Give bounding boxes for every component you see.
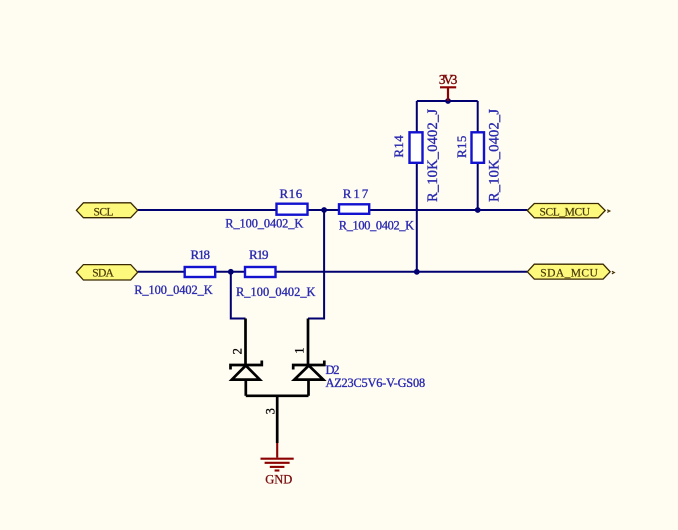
- svg-text:SDA_MCU: SDA_MCU: [540, 268, 598, 280]
- svg-text:3: 3: [264, 408, 278, 414]
- svg-text:R_100_0402_K: R_100_0402_K: [134, 283, 213, 297]
- svg-text:AZ23C5V6-V-GS08: AZ23C5V6-V-GS08: [326, 376, 426, 390]
- svg-text:1: 1: [292, 348, 306, 354]
- svg-text:R18: R18: [191, 247, 211, 262]
- svg-text:R_10K_0402_J: R_10K_0402_J: [425, 109, 441, 202]
- svg-text:3V3: 3V3: [439, 72, 458, 87]
- svg-text:R19: R19: [249, 247, 269, 262]
- svg-text:GND: GND: [265, 473, 292, 487]
- svg-text:R_100_0402_K: R_100_0402_K: [236, 285, 316, 299]
- svg-text:SDA: SDA: [92, 267, 114, 279]
- svg-text:R14: R14: [391, 135, 406, 158]
- svg-text:R17: R17: [343, 186, 369, 201]
- svg-text:R_100_0402_K: R_100_0402_K: [339, 219, 414, 233]
- svg-text:D2: D2: [326, 363, 340, 377]
- svg-text:R15: R15: [454, 136, 469, 158]
- svg-text:R_10K_0402_J: R_10K_0402_J: [487, 109, 503, 202]
- svg-text:R_100_0402_K: R_100_0402_K: [225, 217, 303, 231]
- svg-text:2: 2: [230, 348, 244, 354]
- svg-text:R16: R16: [280, 186, 303, 201]
- svg-text:SCL_MCU: SCL_MCU: [540, 206, 591, 218]
- svg-text:SCL: SCL: [94, 206, 114, 218]
